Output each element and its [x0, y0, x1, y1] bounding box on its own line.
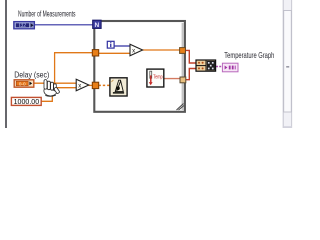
svg-text:Temp: Temp: [153, 74, 163, 80]
svg-text:Number of Measurements: Number of Measurements: [18, 9, 76, 18]
svg-text:x: x: [132, 48, 135, 54]
svg-text:I32: I32: [19, 23, 26, 29]
svg-text:Delay (sec): Delay (sec): [14, 71, 49, 80]
svg-text:0-0: 0-0: [19, 81, 26, 86]
svg-text:x: x: [78, 83, 81, 89]
svg-text:N: N: [95, 22, 100, 29]
svg-text:1000.00: 1000.00: [14, 99, 40, 106]
svg-text:Temperature Graph: Temperature Graph: [224, 51, 274, 60]
